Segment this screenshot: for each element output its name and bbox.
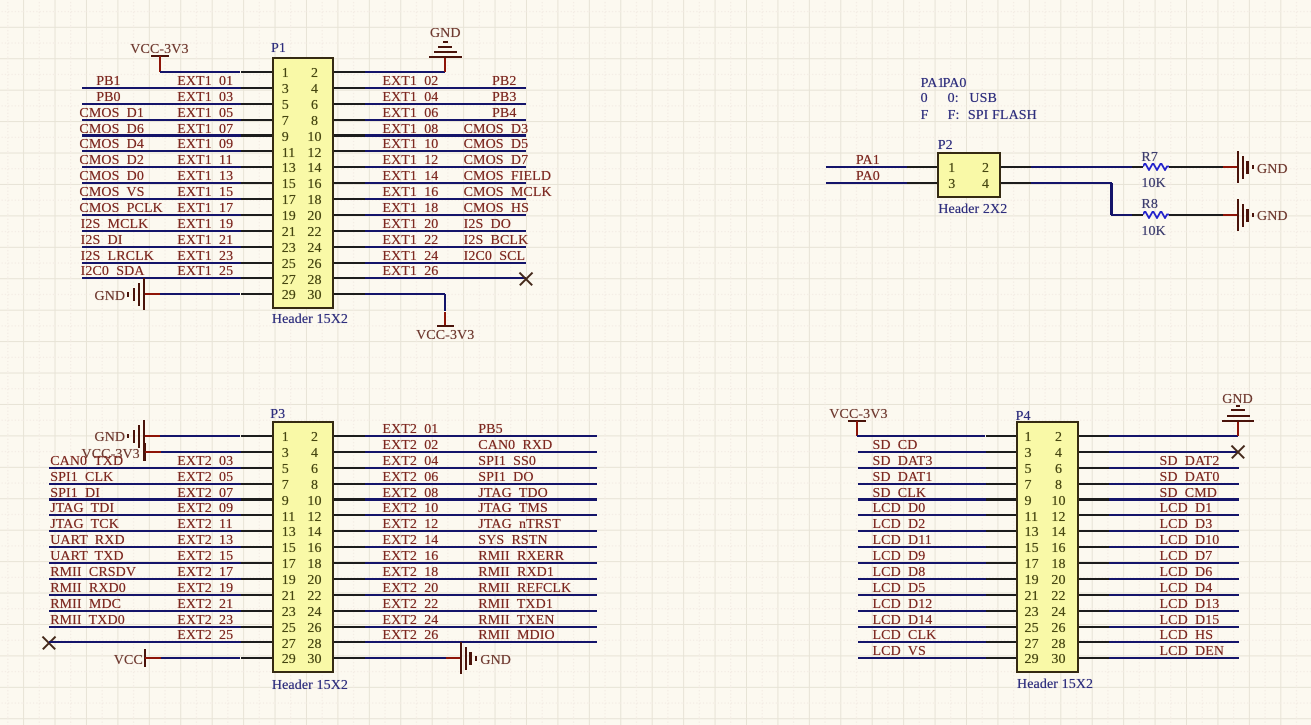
wire net EXT2_24 right of P3 — [365, 626, 598, 628]
wire net EXT1_16 right of P1 — [365, 198, 527, 200]
net label EXT1_06 — [382, 107, 438, 121]
wire net EXT2_20 right of P3 — [365, 594, 598, 596]
net label EXT1_05 — [177, 107, 233, 121]
net label EXT2_25 — [177, 629, 233, 643]
net label EXT2_21 — [177, 598, 233, 612]
pin 20 stub P3 right — [334, 578, 365, 580]
net label EXT2_23 — [177, 614, 233, 628]
pin 14 stub P3 right — [334, 530, 365, 532]
net label I2S_DO — [464, 218, 511, 232]
wire net EXT2_22 right of P3 — [365, 610, 598, 612]
net label PB5 — [478, 423, 502, 437]
net label JTAG_TCK — [50, 518, 119, 532]
wire net EXT1_21 left of P1 pin 23 — [82, 246, 241, 248]
wire net EXT1_13 left of P1 pin 15 — [82, 182, 241, 184]
wire to R8 — [1111, 214, 1132, 216]
net label EXT1_22 — [382, 234, 438, 248]
pin 27 stub — [241, 277, 272, 279]
pin 28 stub P4 right — [1079, 641, 1110, 643]
net label EXT1_19 — [177, 218, 233, 232]
net label SD_DAT1 — [873, 471, 933, 485]
net label PA0 — [856, 170, 880, 184]
net label SD_DAT3 — [873, 455, 933, 469]
net label LCD_D5 — [873, 582, 926, 596]
pin 1 stub P2 — [907, 166, 937, 168]
pin 30 stub P3 — [334, 657, 365, 659]
wire P4 pin4 — [1109, 451, 1238, 453]
wire net LCD_D1 right of P4 — [1109, 514, 1239, 516]
net label EXT1_13 — [177, 170, 233, 184]
pin 26 stub — [334, 262, 365, 264]
net label EXT1_24 — [382, 250, 438, 264]
wire net EXT1_09 left of P1 pin 11 — [82, 150, 241, 152]
net label EXT1_11 — [177, 154, 233, 168]
wire net EXT1_11 left of P1 pin 13 — [82, 166, 241, 168]
wire net LCD_D11 left of P4 — [858, 546, 986, 548]
pin 27 stub P3 — [241, 641, 272, 643]
net label RMII_TXEN — [478, 614, 554, 628]
wire net EXT1_26 right of P1 — [365, 277, 527, 279]
connector P1 Header 15X2 — [272, 57, 334, 309]
pin 12 stub P3 right — [334, 514, 365, 516]
power port GND above P1 — [444, 57, 446, 72]
wire net EXT2_19 left of P3 — [49, 594, 241, 596]
wire net EXT2_07 left of P3 — [49, 498, 241, 500]
pin 19 stub P3 — [241, 578, 272, 580]
pin 25 stub P3 — [241, 626, 272, 628]
pin 26 stub P4 right — [1079, 626, 1110, 628]
wire net LCD_DEN right of P4 — [1109, 657, 1239, 659]
pin 27 stub P4 — [986, 641, 1017, 643]
pin 16 stub — [334, 182, 365, 184]
pin 3 stub P2 — [907, 182, 937, 184]
net label CMOS_VS — [79, 186, 144, 200]
pin 15 stub — [241, 182, 272, 184]
wire net EXT1_14 right of P1 — [365, 182, 527, 184]
net label SPI1_SS0 — [478, 455, 536, 469]
pin 6 stub P4 right — [1079, 467, 1110, 469]
pin 3 stub — [241, 87, 272, 89]
wire net EXT1_04 right of P1 — [365, 103, 527, 105]
pin 1 stub P4 — [986, 435, 1017, 437]
wire net EXT2_26 right of P3 — [365, 641, 598, 643]
pin 19 stub — [241, 214, 272, 216]
net label EXT2_10 — [382, 502, 438, 516]
pin 14 stub — [334, 166, 365, 168]
wire GND to P3 pin1 — [160, 435, 240, 437]
net label LCD_D15 — [1160, 614, 1220, 628]
wire net EXT2_03 left of P3 — [49, 467, 241, 469]
net label EXT1_26 — [382, 265, 438, 279]
net label EXT1_14 — [382, 170, 438, 184]
wire net EXT1_03 left of P1 pin 5 — [82, 103, 241, 105]
net label EXT2_01 — [382, 423, 438, 437]
P2 pin numbers — [948, 162, 955, 176]
net label SD_CMD — [1160, 487, 1218, 501]
pin 2 stub — [334, 71, 365, 73]
pin 21 stub P3 — [241, 594, 272, 596]
pin 7 stub P4 — [986, 483, 1017, 485]
pin 2 stub P3 right — [334, 435, 365, 437]
net label CMOS_FIELD — [464, 170, 551, 184]
net label CMOS_D4 — [79, 138, 144, 152]
net label SPI1_DI — [50, 487, 100, 501]
wire net EXT1_20 right of P1 — [365, 230, 527, 232]
wire net SD_CMD right of P4 — [1109, 498, 1239, 500]
net label LCD_D9 — [873, 550, 926, 564]
P1 pin numbers 1-30 — [282, 67, 289, 81]
pin 16 stub P3 right — [334, 546, 365, 548]
net label EXT2_18 — [382, 566, 438, 580]
wire VCC-3V3 to P3 pin3 — [161, 451, 241, 453]
pin 6 stub P3 right — [334, 467, 365, 469]
net label LCD_D4 — [1160, 582, 1213, 596]
pin 6 stub — [334, 103, 365, 105]
wire net EXT1_18 right of P1 — [365, 214, 527, 216]
power port GND at P3 pin1 — [144, 435, 160, 437]
wire net EXT2_14 right of P3 — [365, 546, 598, 548]
net label EXT1_02 — [382, 75, 438, 89]
net label EXT2_26 — [382, 629, 438, 643]
wire net LCD_D2 left of P4 — [858, 530, 986, 532]
pin 5 stub P3 — [241, 467, 272, 469]
net label EXT1_08 — [382, 123, 438, 137]
no-ERC marker at EXT2_25 — [42, 635, 56, 649]
pin 29 stub — [241, 293, 272, 295]
net label UART_TXD — [50, 550, 123, 564]
net label CMOS_D7 — [464, 154, 529, 168]
pin 22 stub P4 right — [1079, 594, 1110, 596]
net label PA1 — [856, 154, 880, 168]
net label EXT1_09 — [177, 138, 233, 152]
net label EXT2_22 — [382, 598, 438, 612]
net label RMII_RXD0 — [50, 582, 126, 596]
wire net LCD_D9 left of P4 — [858, 562, 986, 564]
wire net EXT2_01 right of P3 — [365, 435, 598, 437]
pin 9 stub P4 — [986, 498, 1017, 500]
wire net EXT2_11 left of P3 — [49, 530, 241, 532]
wire net LCD_D4 right of P4 — [1109, 594, 1239, 596]
net label CMOS_D1 — [79, 107, 144, 121]
pin 17 stub P3 — [241, 562, 272, 564]
pin 17 stub — [241, 198, 272, 200]
power port GND right of P3 — [446, 657, 462, 659]
pin 22 stub P3 right — [334, 594, 365, 596]
net label EXT2_24 — [382, 614, 438, 628]
pin 24 stub P4 right — [1079, 610, 1110, 612]
pin 11 stub P4 — [986, 514, 1017, 516]
wire net EXT1_25 left of P1 pin 27 — [82, 277, 241, 279]
wire P3 pin30 to GND — [365, 657, 446, 659]
net label EXT2_17 — [177, 566, 233, 580]
net label EXT2_05 — [177, 471, 233, 485]
pin 25 stub — [241, 262, 272, 264]
net label RMII_MDC — [50, 598, 121, 612]
pin 12 stub P4 right — [1079, 514, 1110, 516]
pin 19 stub P4 — [986, 578, 1017, 580]
pin 13 stub P4 — [986, 530, 1017, 532]
wire net EXT1_24 right of P1 — [365, 262, 527, 264]
wire GND to P1 pin29 — [160, 293, 240, 295]
pin 13 stub — [241, 166, 272, 168]
wire net EXT1_02 right of P1 — [365, 87, 527, 89]
net label EXT1_07 — [177, 123, 233, 137]
net label RMII_REFCLK — [478, 582, 571, 596]
net label CMOS_HS — [464, 202, 529, 216]
net label PB2 — [492, 75, 516, 89]
wire net LCD_D7 right of P4 — [1109, 562, 1239, 564]
power port GND right of R7 — [1223, 166, 1239, 168]
pin 23 stub P4 — [986, 610, 1017, 612]
net label LCD_CLK — [873, 629, 937, 643]
pin 7 stub — [241, 119, 272, 121]
wire net EXT1_22 right of P1 — [365, 246, 527, 248]
wire net EXT2_08 right of P3 — [365, 498, 598, 500]
net label CMOS_PCLK — [79, 202, 162, 216]
pin 30 stub P4 right — [1079, 657, 1110, 659]
pin 4 stub — [334, 87, 365, 89]
wire net EXT1_15 left of P1 pin 17 — [82, 198, 241, 200]
net label SYS_RSTN — [478, 534, 547, 548]
R8 right lead wire — [1169, 214, 1223, 216]
wire net EXT1_01 left of P1 pin 3 — [82, 87, 241, 89]
pin 5 stub P4 — [986, 467, 1017, 469]
power port GND at P1 pin29 — [144, 293, 160, 295]
pin 12 stub — [334, 150, 365, 152]
net label SPI1_CLK — [50, 471, 113, 485]
net label CMOS_D3 — [464, 123, 529, 137]
pin 22 stub — [334, 230, 365, 232]
wire net EXT2_10 right of P3 — [365, 514, 598, 516]
pin 9 stub P3 — [241, 498, 272, 500]
net label PB3 — [492, 91, 516, 105]
net label PB4 — [492, 107, 516, 121]
net label SPI1_DO — [478, 471, 533, 485]
wire net LCD_D12 left of P4 — [858, 610, 986, 612]
net label LCD_D13 — [1160, 598, 1220, 612]
net label UART_RXD — [50, 534, 124, 548]
wire net LCD_D8 left of P4 — [858, 578, 986, 580]
pin 24 stub P3 right — [334, 610, 365, 612]
pin 28 stub P3 right — [334, 641, 365, 643]
pin 9 stub — [241, 134, 272, 136]
note text PA1 PA0 table — [921, 77, 945, 91]
net label EXT1_25 — [177, 265, 233, 279]
wire net EXT2_13 left of P3 — [49, 546, 241, 548]
net label EXT2_07 — [177, 487, 233, 501]
wire net EXT1_08 right of P1 — [365, 134, 527, 136]
wire net LCD_CLK left of P4 — [858, 641, 986, 643]
net label SD_CLK — [873, 487, 927, 501]
pin 8 stub P3 right — [334, 483, 365, 485]
wire net EXT2_21 left of P3 — [49, 610, 241, 612]
pin 24 stub — [334, 246, 365, 248]
net label EXT1_10 — [382, 138, 438, 152]
wire net EXT1_19 left of P1 pin 21 — [82, 230, 241, 232]
net label EXT1_12 — [382, 154, 438, 168]
wire net EXT1_07 left of P1 pin 9 — [82, 134, 241, 136]
pin 17 stub P4 — [986, 562, 1017, 564]
pin 8 stub P4 right — [1079, 483, 1110, 485]
net label EXT1_20 — [382, 218, 438, 232]
pin 10 stub P3 right — [334, 498, 365, 500]
wire net SD_CD left of P4 — [858, 451, 986, 453]
pin 1 stub P3 — [241, 435, 272, 437]
net label EXT1_01 — [177, 75, 233, 89]
wire P2 pin2 to R7 — [1031, 166, 1132, 168]
net label LCD_VS — [873, 645, 926, 659]
pin 21 stub P4 — [986, 594, 1017, 596]
wire down to VCC-3V3 — [444, 294, 446, 311]
net label EXT2_11 — [177, 518, 233, 532]
net label EXT1_16 — [382, 186, 438, 200]
pin 11 stub — [241, 150, 272, 152]
wire net LCD_D0 left of P4 — [858, 514, 986, 516]
net label I2C0_SDA — [81, 265, 145, 279]
power port VCC at P3 pin29 — [144, 649, 146, 667]
net label CMOS_MCLK — [464, 186, 552, 200]
net label LCD_D6 — [1160, 566, 1213, 580]
pin 13 stub P3 — [241, 530, 272, 532]
net label EXT1_03 — [177, 91, 233, 105]
wire net LCD_HS right of P4 — [1109, 641, 1239, 643]
P4 pin numbers 1-30 — [1025, 431, 1032, 445]
wire net EXT2_17 left of P3 — [49, 578, 241, 580]
net label SD_CD — [873, 439, 918, 453]
pin 11 stub P3 — [241, 514, 272, 516]
wire net EXT2_05 left of P3 — [49, 483, 241, 485]
pin 26 stub P3 right — [334, 626, 365, 628]
pin 15 stub P4 — [986, 546, 1017, 548]
net label I2S_LRCLK — [81, 250, 154, 264]
net label LCD_D0 — [873, 502, 926, 516]
wire net SD_DAT3 left of P4 — [858, 467, 986, 469]
connector P3 Header 15X2 — [272, 421, 334, 673]
net label I2S_MCLK — [81, 218, 149, 232]
wire net EXT2_12 right of P3 — [365, 530, 598, 532]
pin 16 stub P4 right — [1079, 546, 1110, 548]
net label JTAG_TDI — [50, 502, 114, 516]
resistor R7 10K — [1143, 163, 1170, 171]
net label EXT2_14 — [382, 534, 438, 548]
power port VCC-3V3 at P3 pin3 — [143, 443, 145, 461]
pin 10 stub — [334, 134, 365, 136]
net label EXT2_08 — [382, 487, 438, 501]
wire net LCD_D14 left of P4 — [858, 626, 986, 628]
pin 18 stub — [334, 198, 365, 200]
net label EXT1_18 — [382, 202, 438, 216]
pin 3 stub P3 — [241, 451, 272, 453]
pin 5 stub — [241, 103, 272, 105]
wire net EXT2_06 right of P3 — [365, 483, 598, 485]
wire net LCD_VS left of P4 — [858, 657, 986, 659]
net label EXT2_12 — [382, 518, 438, 532]
net label LCD_D11 — [873, 534, 932, 548]
net label JTAG_TDO — [478, 487, 548, 501]
pin 4 stub P3 right — [334, 451, 365, 453]
net label EXT1_04 — [382, 91, 438, 105]
wire net EXT2_16 right of P3 — [365, 562, 598, 564]
net label RMII_MDIO — [478, 629, 554, 643]
resistor R8 10K — [1143, 211, 1170, 219]
net label EXT2_09 — [177, 502, 233, 516]
wire net EXT2_15 left of P3 — [49, 562, 241, 564]
net label RMII_RXD1 — [478, 566, 554, 580]
net label EXT2_13 — [177, 534, 233, 548]
net label RMII_TXD1 — [478, 598, 553, 612]
net label JTAG_nTRST — [478, 518, 560, 532]
wire net LCD_D10 right of P4 — [1109, 546, 1239, 548]
pin 8 stub — [334, 119, 365, 121]
R7 right lead wire — [1169, 166, 1223, 168]
power port VCC-3V3 below P1 — [444, 312, 446, 326]
wire VCC to P3 pin29 — [161, 657, 240, 659]
wire net EXT1_10 right of P1 — [365, 150, 527, 152]
wire P2 pin4 down — [1110, 183, 1112, 215]
pin 10 stub P4 right — [1079, 498, 1110, 500]
net label EXT2_19 — [177, 582, 233, 596]
wire net EXT1_06 right of P1 — [365, 119, 527, 121]
net label EXT1_23 — [177, 250, 233, 264]
wire net LCD_D6 right of P4 — [1109, 578, 1239, 580]
wire VCC-3V3 to P4 pin1 — [857, 435, 985, 437]
net label CMOS_D6 — [79, 123, 144, 137]
net label PB1 — [96, 75, 120, 89]
net label I2S_BCLK — [464, 234, 529, 248]
net label EXT2_03 — [177, 455, 233, 469]
pin 20 stub — [334, 214, 365, 216]
pin 18 stub P4 right — [1079, 562, 1110, 564]
net label RMII_CRSDV — [50, 566, 136, 580]
pin 29 stub P4 — [986, 657, 1017, 659]
net label EXT2_15 — [177, 550, 233, 564]
pin 18 stub P3 right — [334, 562, 365, 564]
net label LCD_HS — [1160, 629, 1214, 643]
pin 4 stub P4 — [1079, 451, 1110, 453]
pin 7 stub P3 — [241, 483, 272, 485]
power port VCC-3V3 at P4 pin1 — [848, 420, 866, 422]
power port GND above P4 — [1237, 421, 1239, 436]
no-ERC marker at EXT1_26 — [519, 271, 533, 285]
connector P4 Header 15X2 — [1016, 421, 1079, 673]
wire net SD_DAT2 right of P4 — [1109, 467, 1239, 469]
net label LCD_D8 — [873, 566, 926, 580]
net label RMII_RXERR — [478, 550, 564, 564]
net label RMII_TXD0 — [50, 614, 125, 628]
power port GND right of R8 — [1223, 214, 1239, 216]
net label LCD_D14 — [873, 614, 933, 628]
pin 23 stub — [241, 246, 272, 248]
pin 4 stub P2 — [1001, 182, 1032, 184]
pin 28 stub — [334, 277, 365, 279]
wire P1 pin30 to VCC-3V3 — [365, 293, 445, 295]
connector P2 Header 2X2 — [937, 152, 1001, 198]
net label SD_DAT0 — [1160, 471, 1220, 485]
pin 14 stub P4 right — [1079, 530, 1110, 532]
wire net EXT2_04 right of P3 — [365, 467, 598, 469]
net label EXT2_04 — [382, 455, 438, 469]
wire net EXT2_18 right of P3 — [365, 578, 598, 580]
net label I2S_DI — [81, 234, 123, 248]
net label EXT2_20 — [382, 582, 438, 596]
wire net EXT1_12 right of P1 — [365, 166, 527, 168]
wire net EXT2_02 right of P3 — [365, 451, 598, 453]
net label LCD_D7 — [1160, 550, 1213, 564]
wire net EXT2_23 left of P3 — [49, 626, 241, 628]
R7 left lead — [1132, 166, 1144, 168]
net label EXT2_16 — [382, 550, 438, 564]
net label JTAG_TMS — [478, 502, 548, 516]
